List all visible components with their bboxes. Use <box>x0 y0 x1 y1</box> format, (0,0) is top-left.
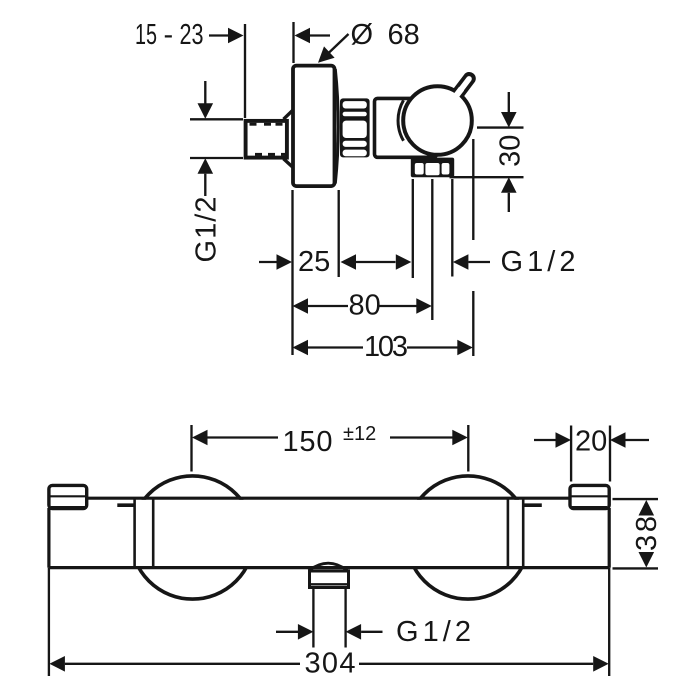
lever base opening <box>455 89 462 98</box>
thread ticks top <box>250 124 287 154</box>
bottom outlet dome <box>309 563 348 570</box>
svg-text:G1/2: G1/2 <box>501 246 576 278</box>
row1 dim 25 <box>259 190 339 355</box>
svg-text:Ø: Ø <box>351 19 374 51</box>
svg-text:-: - <box>164 19 174 51</box>
right pipe step dash <box>525 503 542 507</box>
svg-text:G1/2: G1/2 <box>396 616 471 648</box>
dim G1/2 (outlet) <box>276 588 471 648</box>
svg-text:68: 68 <box>388 19 420 51</box>
thread ticks bottom <box>255 153 262 156</box>
escutcheon disc (side view) <box>293 66 335 187</box>
chamfer top-right <box>284 111 293 120</box>
bottom outlet nut <box>310 571 349 588</box>
dim 15-23 <box>135 19 330 118</box>
row2 dim 80 <box>293 290 432 322</box>
dim 38 (right, vertical) <box>613 499 664 568</box>
row1 label G1/2 (outlet thread) <box>452 179 575 278</box>
left pipe step dash <box>117 503 133 507</box>
svg-text:±12: ±12 <box>343 423 376 445</box>
valve body <box>375 98 437 157</box>
right rosette circle <box>406 476 529 599</box>
chamfer bottom-right <box>284 159 293 167</box>
bar body (covers circles) <box>50 500 608 566</box>
row1 gap dim (unlabeled) <box>341 179 433 320</box>
left rosette circle <box>131 476 254 599</box>
svg-text:30: 30 <box>495 135 527 167</box>
svg-text:15: 15 <box>135 19 157 51</box>
right union nut lines <box>507 500 510 567</box>
left wall flange <box>49 485 87 567</box>
svg-text:G1/2: G1/2 <box>191 197 223 263</box>
svg-text:20: 20 <box>575 426 607 458</box>
label diameter 68 <box>318 19 420 63</box>
dim 20 <box>534 426 649 482</box>
svg-text:80: 80 <box>349 290 381 322</box>
svg-text:23: 23 <box>180 19 204 51</box>
dim 150 +/-12 <box>192 423 469 472</box>
handle lever <box>454 79 469 99</box>
svg-text:25: 25 <box>298 246 330 278</box>
wall union fitting <box>246 121 287 158</box>
left union nut lines <box>133 500 136 567</box>
ribbed connection nut <box>340 98 370 157</box>
svg-text:304: 304 <box>305 648 356 680</box>
disc rim bulge <box>335 69 338 184</box>
outlet nut (top drawing) <box>411 158 454 178</box>
svg-text:150: 150 <box>283 426 333 458</box>
left vertical dim (union height, G1/2) <box>190 81 243 196</box>
right wall flange <box>570 485 609 567</box>
row3 dim 103 <box>293 139 474 363</box>
bar bottom edge <box>49 566 609 569</box>
dim 304 <box>49 568 609 680</box>
dim 30 (right, vertical) <box>450 92 527 212</box>
body cap crescent arc <box>398 100 403 141</box>
svg-text:103: 103 <box>364 331 408 363</box>
handle circle U <box>403 86 472 155</box>
bar top edge <box>87 497 570 500</box>
